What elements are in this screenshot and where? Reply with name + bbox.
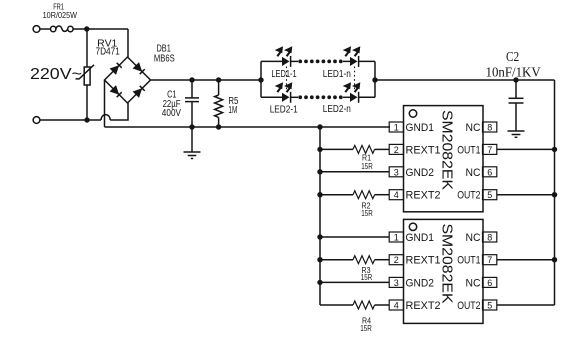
svg-text:15R: 15R [360,324,372,333]
LED LED1-n [350,56,359,67]
svg-text:GND1: GND1 [406,232,434,244]
svg-text:REXT1: REXT1 [406,144,441,156]
wire U1 OUT1 to right bus [497,148,555,150]
junction dot right bus OUT2 (U1) [552,192,557,197]
wire dots to LED1-n [343,60,350,62]
LED LED2-n [350,92,359,103]
wire ground rail (bottom bus) [105,126,391,128]
junction dot bus row3 [317,169,322,174]
svg-text:NC: NC [466,167,481,179]
wire top rail to right bus [375,79,555,81]
svg-text:7D471: 7D471 [96,47,121,58]
svg-text:7: 7 [487,145,492,155]
resistor R2 [353,191,375,199]
wire J2 to hop [40,119,101,121]
node LED split (left) [258,61,263,97]
junction dot right bus OUT1 (U1) [552,147,557,152]
node A junction dot (RV1 top tap) [84,26,89,31]
fuse FR1 [51,26,74,32]
svg-text:REXT1: REXT1 [406,255,441,267]
op IC U1 SM2082EK body [404,106,484,212]
svg-text:3: 3 [394,167,399,177]
resistor R5 [215,80,223,127]
resistor R1 [353,145,375,153]
svg-text:2: 2 [394,255,399,265]
svg-text:6: 6 [487,278,492,288]
junction dot right bus OUT1 (U2) [552,257,557,262]
capacitor C2 [509,80,524,131]
wire U1 pin2 row from bus [320,148,353,150]
terminal J1 (AC live input circle) [33,26,40,33]
wire R3 to U2 pin2 [375,259,390,261]
wire hop over DC- line [101,115,110,120]
junction dot R5 bottom [216,124,221,129]
svg-text:LED2-n: LED2-n [323,104,351,115]
svg-text:OUT1: OUT1 [457,144,480,156]
svg-text:15R: 15R [361,209,373,218]
U2 pin 2 box [389,255,403,265]
LED2-1 emission arrows [275,82,293,92]
dotted continuation LED2 string [298,95,342,99]
diode DB1-c (left-bottom edge) [110,85,122,97]
U2 pin 8 box [483,232,497,242]
bridge rectifier DB1 [105,57,151,103]
diode DB1-d (bottom-right edge) [133,86,145,98]
U1 pin 8 box [483,122,497,132]
svg-text:REXT2: REXT2 [406,190,441,202]
wire LED2 branch left [261,96,282,98]
wire down to bridge top corner [127,29,129,57]
wire LED1-n to right merge [359,60,375,62]
dotted link LED1-1 to LED2-1 [286,67,288,93]
node LED merge (right) [372,61,377,97]
svg-text:DB1: DB1 [157,43,172,54]
svg-text:SM2082EK: SM2082EK [439,224,456,304]
svg-text:OUT1: OUT1 [457,255,480,267]
junction dot C1 top [189,77,194,82]
svg-text:7: 7 [487,255,492,265]
dotted link LED1-n to LED2-n [354,67,356,93]
terminal J2 (AC neutral input circle) [33,117,40,124]
svg-text:10nF/1KV: 10nF/1KV [486,64,541,79]
junction dot bus row4 [317,192,322,197]
U1 pin 6 box [483,167,497,177]
junction dot left bus top [317,124,322,129]
svg-text:2: 2 [394,145,399,155]
resistor R3 [353,256,375,264]
LED LED2-1 [282,92,291,103]
wire R4 to U2 pin4 [375,304,390,306]
svg-text:OUT2: OUT2 [457,190,480,202]
wire U1 OUT2 to right bus [497,194,555,196]
wire dots to LED2-n [343,96,350,98]
svg-text:C2: C2 [506,49,519,64]
wire LED1-1 to dots [291,60,298,62]
wire J1 to fuse [40,28,51,30]
LED LED1-1 [282,56,291,67]
wire DC- from bridge left corner down to ground rail [104,80,106,127]
svg-text:4: 4 [394,190,399,200]
U1 pin-1 marker circle [409,110,416,117]
LED1-1 emission arrows [275,46,293,56]
svg-text:GND2: GND2 [406,277,434,289]
svg-text:LED1-1: LED1-1 [271,69,297,80]
U1 pin 3 box [389,167,403,177]
svg-text:5: 5 [487,190,492,200]
svg-text:8: 8 [487,233,492,243]
wire R1 to U1 pin2 [375,148,390,150]
svg-text:SM2082EK: SM2082EK [439,110,456,190]
junction dot RV1 bottom [84,117,89,122]
U2 pin 4 box [389,300,403,310]
svg-text:1M: 1M [228,105,237,116]
svg-text:1: 1 [394,123,399,133]
capacitor C1 [185,80,199,127]
LED2-n emission arrows [343,82,361,92]
svg-text:OUT2: OUT2 [457,300,480,312]
wire LED2-1 to dots [291,96,298,98]
svg-text:1: 1 [394,233,399,243]
U2 pin-1 marker circle [409,223,416,230]
U1 pin 5 box [483,190,497,200]
svg-text:15R: 15R [361,273,373,282]
svg-text:GND2: GND2 [406,167,434,179]
varistor RV1 [76,29,95,120]
svg-text:NC: NC [466,122,481,134]
junction dot bus U2 row3 [317,280,322,285]
diode DB1-a (left-top edge) [110,63,122,75]
wire R2 to U1 pin4 [375,194,390,196]
svg-text:15R: 15R [361,162,373,171]
svg-text:LED1-n: LED1-n [323,69,351,80]
wire U2 pin3 row from bus [320,281,389,283]
svg-text:NC: NC [466,277,481,289]
svg-text:3: 3 [394,278,399,288]
wire U2 OUT2 to right bus [497,304,555,306]
junction dot C1 bottom [189,124,194,129]
wire U2 OUT1 to right bus [497,259,555,261]
wire U2 pin2 row from bus [320,259,353,261]
wire right bus vertical [554,80,556,305]
LED1-n emission arrows [343,46,361,56]
U1 pin 1 box [389,122,403,132]
wire fuse to bridge top [73,28,128,30]
ground (below C1) [184,127,201,159]
junction dot R5 top [216,77,221,82]
wire U1 pin4 row from bus [320,194,353,196]
svg-text:NC: NC [466,232,481,244]
U1 pin 2 box [389,144,403,154]
svg-text:REXT2: REXT2 [406,300,441,312]
dotted continuation LED1 string [298,60,342,64]
wire U2 pin4 row from bus corner [320,304,353,306]
svg-text:6: 6 [487,167,492,177]
U2 pin 7 box [483,255,497,265]
U2 pin 3 box [389,277,403,287]
svg-text:GND1: GND1 [406,122,434,134]
ground (below C2) [508,131,525,137]
diode DB1-b (top-right edge) [133,62,145,74]
svg-text:5: 5 [487,301,492,311]
svg-text:8: 8 [487,123,492,133]
junction dot C2 top [513,77,518,82]
svg-text:LED2-1: LED2-1 [270,105,298,116]
U1 pin 7 box [483,144,497,154]
svg-text:220V~: 220V~ [30,66,82,83]
junction dot bus row2 [317,147,322,152]
svg-text:400V: 400V [162,108,181,119]
svg-text:MB6S: MB6S [154,54,175,65]
junction dot bus U2 row1 [317,234,322,239]
svg-text:10R/025W: 10R/025W [43,10,77,20]
U2 pin 6 box [483,277,497,287]
svg-text:4: 4 [394,301,399,311]
resistor R4 [353,301,375,309]
U2 pin 1 box [389,232,403,242]
junction dot bus U2 row2 [317,257,322,262]
U1 pin 4 box [389,190,403,200]
wire LED2-n to right merge [359,96,375,98]
op IC U2 SM2082EK body [404,219,484,323]
wire U2 pin1 row from bus [320,236,389,238]
wire hop to bridge bottom corner [110,103,128,120]
U2 pin 5 box [483,300,497,310]
wire LED1 branch left [261,60,282,62]
wire U1 pin3 row from bus [320,171,389,173]
wire DC+ rail from bridge right corner [151,79,262,81]
wire left bus vertical [319,127,321,305]
